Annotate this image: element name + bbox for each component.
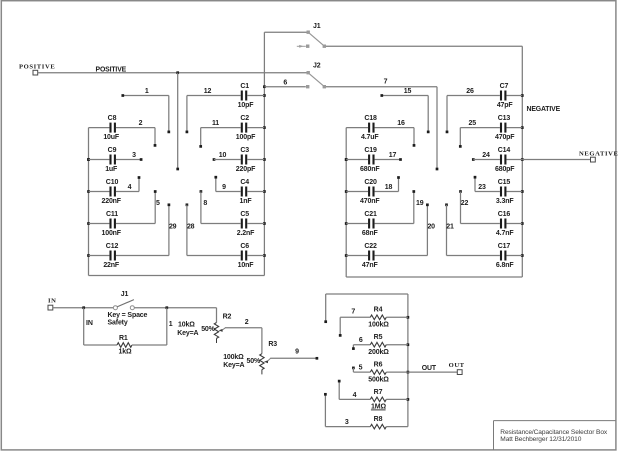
svg-text:21: 21 <box>446 224 454 231</box>
svg-text:1: 1 <box>169 321 173 328</box>
svg-text:5: 5 <box>359 365 363 372</box>
svg-text:OUT: OUT <box>449 362 465 369</box>
svg-text:3.3nF: 3.3nF <box>496 198 514 205</box>
svg-text:16: 16 <box>397 120 405 127</box>
svg-text:C16: C16 <box>498 211 511 218</box>
svg-text:J1: J1 <box>313 23 321 30</box>
svg-text:Key=A: Key=A <box>223 362 244 369</box>
svg-text:POSITIVE: POSITIVE <box>19 63 55 70</box>
svg-text:8: 8 <box>203 200 207 207</box>
svg-text:12: 12 <box>204 88 212 95</box>
svg-text:200kΩ: 200kΩ <box>368 349 389 356</box>
svg-text:100nF: 100nF <box>101 230 121 237</box>
svg-text:C3: C3 <box>240 147 249 154</box>
svg-text:C4: C4 <box>240 179 249 186</box>
svg-text:470nF: 470nF <box>360 198 380 205</box>
svg-text:R3: R3 <box>268 341 277 348</box>
svg-text:17: 17 <box>389 152 397 159</box>
svg-text:POSITIVE: POSITIVE <box>96 66 127 73</box>
svg-text:4.7nF: 4.7nF <box>496 230 514 237</box>
svg-text:C22: C22 <box>364 243 377 250</box>
svg-text:470pF: 470pF <box>495 134 515 141</box>
svg-text:C11: C11 <box>106 211 118 218</box>
svg-text:4: 4 <box>353 392 357 399</box>
svg-text:C2: C2 <box>240 115 249 122</box>
svg-text:10uF: 10uF <box>103 134 120 141</box>
svg-text:22nF: 22nF <box>103 262 120 269</box>
svg-text:2: 2 <box>139 120 143 127</box>
svg-text:C20: C20 <box>364 179 377 186</box>
svg-text:Key=A: Key=A <box>177 330 198 337</box>
svg-text:J2: J2 <box>313 63 321 70</box>
svg-text:OUT: OUT <box>422 365 437 372</box>
svg-text:C1: C1 <box>240 83 249 90</box>
svg-text:10: 10 <box>219 152 227 159</box>
svg-text:R4: R4 <box>374 307 383 314</box>
svg-text:100kΩ: 100kΩ <box>223 354 244 361</box>
svg-text:20: 20 <box>427 224 435 231</box>
svg-text:15: 15 <box>404 88 412 95</box>
svg-text:C21: C21 <box>364 211 377 218</box>
svg-text:R7: R7 <box>374 389 383 396</box>
svg-text:100pF: 100pF <box>236 134 256 141</box>
svg-text:24: 24 <box>482 152 490 159</box>
svg-text:50%: 50% <box>201 326 215 333</box>
svg-text:Key = Space: Key = Space <box>108 312 148 319</box>
svg-text:680pF: 680pF <box>495 166 515 173</box>
svg-text:50%: 50% <box>247 358 261 365</box>
svg-text:C19: C19 <box>364 147 377 154</box>
svg-text:47nF: 47nF <box>362 262 379 269</box>
svg-text:7: 7 <box>351 309 355 316</box>
svg-text:R5: R5 <box>374 334 383 341</box>
svg-text:3: 3 <box>345 419 349 426</box>
svg-text:220pF: 220pF <box>236 166 256 173</box>
svg-text:Matt Bechberger 12/31/2010: Matt Bechberger 12/31/2010 <box>500 436 581 443</box>
svg-text:IN: IN <box>86 320 93 327</box>
svg-text:7: 7 <box>384 78 388 85</box>
svg-text:4.7uF: 4.7uF <box>361 134 379 141</box>
svg-text:R8: R8 <box>374 416 383 423</box>
svg-text:9: 9 <box>222 184 226 191</box>
svg-text:68nF: 68nF <box>362 230 379 237</box>
svg-text:C10: C10 <box>106 179 119 186</box>
svg-text:1: 1 <box>145 88 149 95</box>
svg-text:1nF: 1nF <box>240 198 253 205</box>
svg-text:2.2nF: 2.2nF <box>237 230 255 237</box>
svg-text:19: 19 <box>416 200 424 207</box>
svg-text:NEGATIVE: NEGATIVE <box>579 151 618 158</box>
svg-text:29: 29 <box>169 224 177 231</box>
svg-text:C7: C7 <box>500 83 509 90</box>
svg-text:Safety: Safety <box>108 320 128 327</box>
svg-text:47pF: 47pF <box>497 102 514 109</box>
svg-text:10pF: 10pF <box>238 102 255 109</box>
svg-text:500kΩ: 500kΩ <box>368 376 389 383</box>
svg-text:680nF: 680nF <box>360 166 380 173</box>
svg-text:100kΩ: 100kΩ <box>368 322 389 329</box>
svg-text:6.8nF: 6.8nF <box>496 262 514 269</box>
svg-text:C17: C17 <box>498 243 511 250</box>
svg-text:C9: C9 <box>108 147 117 154</box>
svg-text:C6: C6 <box>240 243 249 250</box>
svg-text:Resistance/Capacitance Selecto: Resistance/Capacitance Selector Box <box>500 429 608 436</box>
svg-text:J1: J1 <box>121 291 129 298</box>
svg-text:C12: C12 <box>106 243 119 250</box>
svg-text:10kΩ: 10kΩ <box>178 322 195 329</box>
svg-text:6: 6 <box>283 79 287 86</box>
svg-text:R1: R1 <box>119 335 128 342</box>
svg-text:18: 18 <box>385 184 393 191</box>
svg-text:C14: C14 <box>498 147 511 154</box>
svg-text:4: 4 <box>128 184 132 191</box>
svg-text:5: 5 <box>156 200 160 207</box>
svg-text:10nF: 10nF <box>238 262 255 269</box>
svg-text:IN: IN <box>48 297 57 304</box>
svg-text:23: 23 <box>478 184 486 191</box>
svg-text:C15: C15 <box>498 179 511 186</box>
svg-text:220nF: 220nF <box>101 198 121 205</box>
svg-text:6: 6 <box>359 337 363 344</box>
svg-text:R2: R2 <box>223 313 232 320</box>
svg-text:28: 28 <box>187 224 195 231</box>
svg-text:R6: R6 <box>374 362 383 369</box>
svg-text:25: 25 <box>469 120 477 127</box>
svg-text:NEGATIVE: NEGATIVE <box>527 106 561 113</box>
svg-text:9: 9 <box>295 348 299 355</box>
svg-text:C13: C13 <box>498 115 511 122</box>
svg-text:26: 26 <box>466 88 474 95</box>
svg-text:22: 22 <box>461 200 469 207</box>
svg-text:2: 2 <box>245 319 249 326</box>
svg-text:1kΩ: 1kΩ <box>119 349 132 356</box>
svg-text:3: 3 <box>132 152 136 159</box>
svg-text:C5: C5 <box>240 211 249 218</box>
svg-text:1uF: 1uF <box>105 166 118 173</box>
svg-text:C8: C8 <box>108 115 117 122</box>
svg-text:11: 11 <box>212 120 219 127</box>
svg-text:C18: C18 <box>364 115 377 122</box>
